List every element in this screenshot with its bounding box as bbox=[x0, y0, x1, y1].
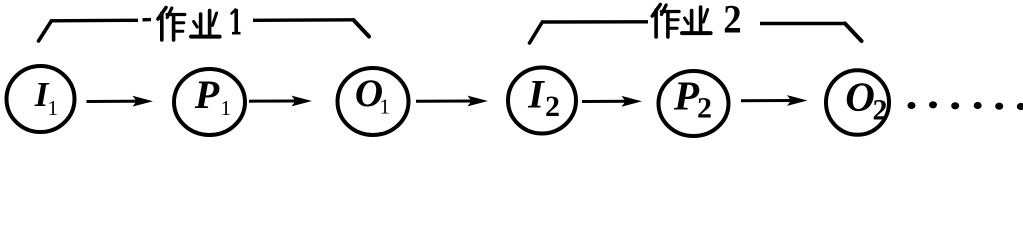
brace job2 right horizontal wire bbox=[760, 22, 845, 25]
node O1 circle bbox=[338, 68, 409, 135]
brace job1 right horizontal wire bbox=[253, 18, 354, 22]
label digit 1 of 作业 1 bbox=[232, 9, 241, 33]
svg-text:2: 2 bbox=[697, 92, 712, 125]
arrow O1 to I2 bbox=[416, 96, 488, 107]
svg-text:2: 2 bbox=[723, 0, 741, 42]
ellipsis dot 2 bbox=[929, 101, 937, 108]
svg-text:1: 1 bbox=[380, 95, 391, 119]
brace job2 right diagonal bbox=[845, 24, 862, 42]
ellipsis dot 4 bbox=[974, 102, 982, 109]
label 业 (ye) of 作业 1 bbox=[191, 11, 220, 37]
node O2 circle bbox=[826, 70, 889, 135]
brace job1 left horizontal wire bbox=[50, 20, 151, 21]
svg-text:2: 2 bbox=[545, 90, 560, 123]
svg-text:I: I bbox=[527, 72, 545, 117]
svg-text:O: O bbox=[845, 74, 875, 120]
ellipsis dot 6 bbox=[1017, 103, 1023, 110]
svg-text:1: 1 bbox=[221, 96, 232, 120]
node P1 circle bbox=[174, 69, 245, 135]
svg-text:P: P bbox=[673, 73, 700, 119]
brace job2 left diagonal bbox=[530, 23, 543, 44]
label 作 (zuo) of 作业 1 bbox=[158, 8, 185, 41]
svg-text:1: 1 bbox=[48, 96, 59, 120]
brace job1 left diagonal bbox=[39, 22, 52, 42]
label 业 (ye) of 作业 2 bbox=[682, 7, 711, 33]
brace job2 left horizontal wire bbox=[541, 20, 648, 24]
ellipsis dot 5 bbox=[995, 103, 1003, 110]
ellipsis dot 3 bbox=[951, 102, 959, 109]
arrow I2 to P2 bbox=[582, 96, 642, 107]
node I1 circle bbox=[7, 66, 75, 132]
brace job1 right diagonal bbox=[354, 20, 370, 37]
svg-text:P: P bbox=[194, 72, 220, 117]
ellipsis dot 1 bbox=[908, 102, 916, 109]
arrow P1 to O1 bbox=[249, 96, 312, 107]
arrow P2 to O2 bbox=[741, 95, 808, 106]
svg-text:2: 2 bbox=[873, 94, 888, 127]
arrow I1 to P1 bbox=[87, 96, 154, 107]
node I2 circle bbox=[508, 68, 576, 134]
label 作 (zuo) of 作业 2 bbox=[652, 5, 679, 38]
node P2 circle bbox=[659, 71, 729, 136]
